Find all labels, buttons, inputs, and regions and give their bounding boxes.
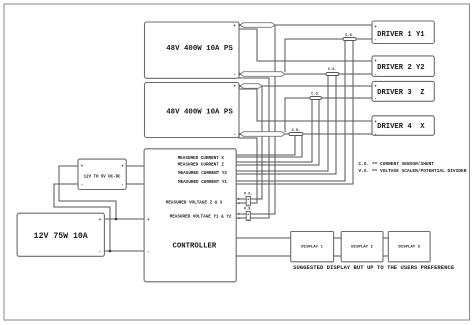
svg-text:DRIVER 1 Y1: DRIVER 1 Y1 (377, 31, 425, 39)
svg-text:C.S.: C.S. (328, 68, 337, 72)
svg-text:MEASURED CURRENT X: MEASURED CURRENT X (178, 156, 225, 161)
svg-text:DRIVER 2 Y2: DRIVER 2 Y2 (377, 64, 424, 72)
svg-text:MEASURED CURRENT Y2: MEASURED CURRENT Y2 (178, 171, 227, 176)
svg-text:CONTROLLER: CONTROLLER (173, 243, 217, 251)
svg-text:DISPLAY 1: DISPLAY 1 (301, 245, 323, 249)
svg-text:-: - (99, 251, 101, 255)
svg-text:MEASURED VOLTAGE Y1 & Y2: MEASURED VOLTAGE Y1 & Y2 (170, 215, 232, 220)
svg-text:MEASURED CURRENT Z: MEASURED CURRENT Z (178, 163, 225, 168)
svg-text:48V 400W 10A PS: 48V 400W 10A PS (166, 45, 233, 53)
svg-text:-: - (374, 134, 376, 138)
svg-text:-: - (238, 203, 240, 207)
svg-text:-: - (374, 97, 376, 101)
svg-text:DRIVER 3 Z: DRIVER 3 Z (377, 89, 424, 97)
svg-text:C.S.: C.S. (292, 129, 301, 133)
svg-text:12V 75W 10A: 12V 75W 10A (34, 232, 88, 241)
svg-text:MEASURED CURRENT Y1: MEASURED CURRENT Y1 (178, 180, 227, 185)
svg-text:-: - (374, 74, 376, 78)
svg-text:MEASURED VOLTAGE Z & X: MEASURED VOLTAGE Z & X (166, 200, 223, 205)
svg-text:-: - (147, 251, 149, 255)
svg-text:-: - (238, 218, 240, 222)
svg-text:48V 400W 10A PS: 48V 400W 10A PS (166, 109, 233, 117)
svg-text:V.S.: V.S. (244, 207, 253, 211)
svg-text:-: - (121, 184, 123, 188)
svg-text:SUGGESTED DISPLAY BUT UP TO TH: SUGGESTED DISPLAY BUT UP TO THE USERS PR… (293, 264, 455, 271)
svg-text:C.S.: C.S. (311, 93, 320, 97)
svg-text:V.S.: V.S. (244, 193, 253, 197)
svg-text:+: + (247, 213, 249, 217)
svg-text:12V TO 5V DC-DC: 12V TO 5V DC-DC (84, 176, 121, 180)
svg-text:-: - (247, 203, 249, 207)
svg-text:C.S. == CURRENT SENSOR/SHUNT: C.S. == CURRENT SENSOR/SHUNT (358, 161, 434, 167)
svg-text:DRIVER 4 X: DRIVER 4 X (377, 123, 425, 131)
svg-text:-: - (247, 218, 249, 222)
svg-text:C.S.: C.S. (345, 34, 354, 38)
svg-text:+: + (247, 199, 249, 203)
svg-text:DISPLAY 3: DISPLAY 3 (398, 245, 420, 249)
svg-text:-: - (233, 74, 235, 78)
svg-text:-: - (233, 134, 235, 138)
svg-text:V.S. == VOLTAGE SCALER/POTENTI: V.S. == VOLTAGE SCALER/POTENTIAL DIVIDER (358, 168, 466, 174)
svg-text:-: - (374, 39, 376, 43)
svg-text:-: - (81, 184, 83, 188)
svg-text:DISPLAY 2: DISPLAY 2 (351, 245, 373, 249)
